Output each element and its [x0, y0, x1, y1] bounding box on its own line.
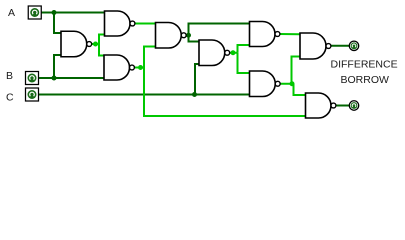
- output connector DIFFERENCE: [349, 41, 358, 50]
- NAND gate G1: [105, 11, 135, 36]
- wire B branch to G2 bottom input: [54, 55, 61, 78]
- wire G4 output net: [186, 34, 189, 36]
- input connector C: [26, 88, 39, 101]
- junction net G4 out: [186, 33, 191, 38]
- junction net C: [192, 92, 197, 97]
- wire G8 output net: [280, 83, 294, 85]
- svg-text:B: B: [6, 70, 13, 82]
- NAND gate G4: [156, 23, 187, 49]
- wire G7 output to DIFFERENCE: [331, 45, 350, 47]
- wire G2 net to G1 bottom input: [99, 35, 105, 56]
- svg-text:DIFFERENCE: DIFFERENCE: [331, 59, 398, 71]
- svg-text:A: A: [8, 7, 15, 19]
- NAND gate G9: [306, 93, 336, 118]
- svg-text:BORROW: BORROW: [341, 74, 390, 86]
- junction net G5 out: [231, 50, 236, 55]
- wire G2 net to G3 top input: [99, 44, 104, 56]
- output connector BORROW: [349, 101, 358, 110]
- junction net G3 out: [138, 65, 143, 70]
- wire G4 net to G6 top input: [189, 24, 250, 36]
- NAND gate G7: [300, 33, 331, 59]
- wire G8 net to G9 top input: [294, 84, 306, 95]
- wire G2 output net: [92, 43, 100, 45]
- wire G6 output to G7 top input: [280, 33, 301, 35]
- NAND gate G2: [61, 31, 92, 57]
- wire G3 net to G9 bottom input: [144, 68, 306, 117]
- NAND gate G5: [199, 40, 230, 66]
- junction net G2 out: [93, 42, 98, 47]
- junction net A: [52, 10, 57, 15]
- wire G1 output to G4 top input: [135, 23, 156, 25]
- wire G4 net to G5 top input: [189, 35, 200, 41]
- junction net B: [52, 76, 57, 81]
- wire C to G8 bottom input: [39, 94, 250, 96]
- NAND gate G3: [104, 55, 134, 80]
- wire G5 output net: [229, 52, 238, 54]
- wire G5 net to G6 bottom input: [238, 45, 250, 53]
- wire B to G3 bottom input: [39, 77, 105, 79]
- input connector A: [28, 6, 41, 19]
- wire G3 net to G4 bottom input: [144, 47, 156, 68]
- wire G3 output net: [134, 67, 144, 69]
- NAND gate G8: [250, 71, 281, 97]
- svg-text:C: C: [6, 92, 14, 104]
- junction net G8 out: [290, 81, 295, 86]
- wire G5 net to G8 top input: [238, 53, 250, 73]
- wire G9 output to BORROW: [336, 105, 350, 107]
- NAND gate G6: [250, 22, 280, 47]
- wire C branch to G5 bottom input: [195, 64, 199, 95]
- wire A to G1 top input: [41, 12, 105, 14]
- input connector B: [26, 72, 39, 85]
- wire G8 net to G7 bottom input: [292, 57, 301, 84]
- wire A branch to G2 top input: [54, 13, 61, 34]
